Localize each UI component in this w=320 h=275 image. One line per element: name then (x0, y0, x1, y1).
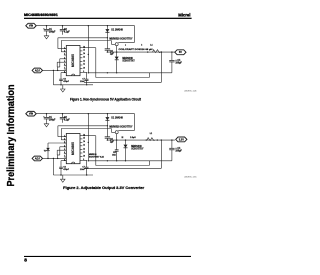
wire ground return (Fig.1) (88, 72, 172, 73)
wire switch node to VOUT (Fig.1) (107, 51, 175, 52)
svg-text:MIC4685: MIC4685 (71, 54, 75, 67)
IC U1 MIC4685 (Fig.2) (66, 134, 80, 164)
wire bottom return with ADJ drop (Fig.2) (53, 158, 93, 175)
svg-text:L1: L1 (150, 133, 153, 135)
wire pin5 pin6 bundle (Fig.1) (57, 59, 66, 67)
svg-text:6: 6 (64, 64, 65, 66)
wire VIN rail (Fig.2) (36, 113, 134, 115)
label figure 1 code (184, 90, 198, 92)
header rule (24, 18, 192, 19)
svg-text:ADJ: ADJ (35, 69, 41, 72)
capacitor C4 output 100uF (Fig.1) (169, 52, 182, 73)
svg-text:10: 10 (83, 67, 85, 69)
svg-text:15: 15 (83, 50, 85, 52)
svg-text:SCHOTTKY: SCHOTTKY (122, 61, 135, 63)
svg-text:1µF: 1µF (110, 141, 115, 143)
wire ADJ to IC pin7 (Fig.2) (43, 155, 67, 159)
svg-text:3: 3 (64, 54, 65, 56)
svg-text:0.1µF: 0.1µF (64, 120, 70, 122)
capacitor C6 comp 470pF (Fig.2) (59, 161, 70, 175)
IC U1 MIC4685 (Fig.1) (66, 46, 80, 76)
wire ground return (Fig.2) (88, 160, 172, 161)
svg-text:ADJ: ADJ (35, 157, 41, 160)
svg-text:7: 7 (64, 68, 65, 70)
caption figure 2 (63, 186, 145, 190)
svg-text:b: b (141, 45, 142, 47)
header right brand (178, 13, 190, 18)
wire pin5 pin6 bundle (Fig.2) (57, 147, 66, 155)
svg-text:a: a (125, 45, 126, 47)
node VIN terminal (Fig.2) (26, 111, 36, 116)
svg-text:100µF: 100µF (49, 32, 56, 34)
wire switch node to VOUT (Fig.2) (107, 139, 175, 140)
svg-text:5V: 5V (179, 51, 182, 54)
svg-text:MBR0520 SCHOTTKY: MBR0520 SCHOTTKY (109, 126, 133, 128)
svg-text:100µF: 100µF (49, 120, 56, 122)
wire rail corner to BS node (Fig.2) (118, 114, 134, 131)
wire loop pin3 to BS node (Fig.2) (61, 129, 115, 140)
ground bottom (Fig.1) (61, 85, 66, 92)
svg-text:VIN: VIN (29, 113, 33, 116)
capacitor C7 comp 1.5nF (Fig.2) (80, 160, 89, 175)
inductor L1 68uH (Fig.2) (122, 133, 155, 141)
footer page number (24, 257, 27, 263)
ground bottom (Fig.2) (61, 175, 66, 182)
diode D2 catch MBRS340 (Fig.1) (115, 52, 136, 73)
inductor L1 68uH (Fig.1) (119, 44, 161, 52)
svg-text:10Ω: 10Ω (112, 155, 116, 157)
capacitor C1 100uF (Fig.1) (43, 25, 56, 35)
svg-text:11: 11 (83, 152, 85, 154)
svg-text:11: 11 (83, 64, 85, 66)
svg-text:1.5nF: 1.5nF (80, 169, 86, 171)
svg-text:8: 8 (24, 257, 27, 263)
svg-text:14: 14 (83, 140, 85, 143)
svg-text:D1 1N4148: D1 1N4148 (111, 29, 123, 32)
capacitor C3 bootstrap 1uF (Fig.2) (105, 126, 115, 144)
diode D1 bootstrap 1N4148 (Fig.1) (105, 25, 133, 40)
label D2 part number (Fig.2) (89, 154, 105, 158)
wire VIN pin drop (Fig.2) (88, 113, 89, 161)
node VOUT terminal (Fig.1) (175, 50, 186, 55)
svg-text:6: 6 (64, 152, 65, 154)
capacitor C7 comp 1.5nF (Fig.1) (80, 72, 89, 85)
wire rail corner to BS node (Fig.1) (118, 26, 134, 43)
svg-text:4685-04: 4685-04 (184, 90, 198, 92)
node ADJ terminal (Fig.2) (32, 156, 42, 161)
node BS circle (Fig.1) (115, 43, 118, 52)
header left part number (24, 13, 58, 17)
svg-text:1.5nF: 1.5nF (80, 81, 86, 83)
svg-text:10: 10 (83, 155, 85, 157)
wire loop pin2 to bootstrap rail (Fig.1) (58, 37, 108, 49)
svg-text:470pF: 470pF (63, 168, 69, 171)
svg-text:12: 12 (83, 60, 85, 62)
capacitor C4 output 100uF (Fig.2) (169, 140, 182, 161)
svg-text:7: 7 (64, 156, 65, 158)
svg-text:+: + (43, 27, 45, 31)
wire feedback sense from VOUT (Fig.2) (84, 140, 161, 168)
svg-text:VIN: VIN (29, 25, 33, 28)
capacitor C6 comp 470pF (Fig.1) (59, 73, 70, 85)
diode D1 bootstrap 1N4148 (Fig.2) (105, 113, 133, 128)
capacitor C2 0.1uF (Fig.1) (60, 25, 71, 35)
svg-text:1.5µH: 1.5µH (130, 137, 136, 139)
sidebar vertical title Preliminary Information (6, 85, 17, 187)
capacitor C3 bootstrap 1uF (Fig.1) (105, 38, 115, 56)
svg-text:0.1µF: 0.1µF (64, 32, 70, 34)
footer rule (24, 256, 191, 257)
svg-text:13: 13 (83, 57, 85, 59)
svg-text:COILCRAFT DO3316 68 µH: COILCRAFT DO3316 68 µH (119, 48, 154, 51)
node VOUT terminal (Fig.2) (176, 137, 187, 142)
wire VIN pin drop (Fig.1) (88, 25, 89, 73)
svg-text:Figure 2. Adjustable Output 3.: Figure 2. Adjustable Output 3.3V Convert… (63, 186, 145, 190)
ground below C1 (Fig.1) (44, 35, 49, 39)
svg-text:Micrel: Micrel (178, 13, 190, 18)
IC pin stubs with pin numbers (Fig.1) (64, 46, 85, 73)
wire feedback nest pin16 (Fig.2) (82, 136, 149, 166)
IC pin stubs with pin numbers (Fig.2) (64, 134, 85, 161)
svg-text:SCHOTTKY: SCHOTTKY (131, 149, 144, 151)
svg-text:D1 1N4148: D1 1N4148 (111, 117, 123, 120)
svg-text:MIC4685/4690/4691: MIC4685/4690/4691 (24, 13, 58, 17)
svg-text:100µF: 100µF (175, 62, 182, 64)
ground below C1 (Fig.2) (44, 123, 49, 127)
node ADJ terminal (Fig.1) (32, 68, 42, 73)
diode D2 catch MBRS340 (Fig.2) (124, 139, 145, 161)
svg-text:MIC4685: MIC4685 (71, 142, 75, 155)
svg-text:13: 13 (83, 145, 85, 147)
capacitor C1 100uF (Fig.2) (43, 113, 56, 123)
svg-text:MBR0520 SCHOTTKY: MBR0520 SCHOTTKY (109, 38, 133, 40)
caption figure 1 (70, 98, 142, 102)
svg-text:12: 12 (83, 148, 85, 150)
node BS circle (Fig.2) (115, 131, 118, 140)
capacitor C2 0.1uF (Fig.2) (60, 113, 71, 123)
label figure 2 code (184, 176, 198, 178)
wire feedback nest pin16 (Fig.1) (82, 48, 149, 78)
svg-text:470pF: 470pF (63, 80, 69, 83)
wire VIN rail (Fig.1) (36, 25, 134, 27)
svg-text:14: 14 (83, 52, 85, 55)
svg-text:Figure 1. Non-Synchronous 5V A: Figure 1. Non-Synchronous 5V Application… (70, 98, 142, 102)
svg-text:100µF: 100µF (175, 150, 182, 152)
diode D3 adjust (Fig.2) (44, 143, 67, 159)
svg-text:4685-05: 4685-05 (184, 176, 198, 178)
wire loop pin2 to bootstrap rail (Fig.2) (58, 125, 108, 137)
wire bottom return with ADJ drop (Fig.1) (53, 70, 93, 85)
svg-text:1µF: 1µF (110, 53, 115, 55)
svg-text:SCHOTTKY 0.3A: SCHOTTKY 0.3A (89, 155, 105, 158)
svg-text:15: 15 (83, 138, 85, 140)
svg-text:22: 22 (122, 137, 124, 139)
svg-text:L1: L1 (150, 44, 153, 46)
wire feedback sense from VOUT (Fig.1) (84, 52, 161, 82)
svg-text:+: + (43, 115, 45, 119)
resistor R3 snubber (Fig.2) (112, 140, 119, 161)
svg-text:Preliminary Information: Preliminary Information (6, 85, 17, 187)
wire loop pin3 to BS node (Fig.1) (61, 41, 115, 52)
node VIN terminal (Fig.1) (26, 23, 36, 28)
svg-text:3.3V: 3.3V (179, 138, 184, 141)
wire ADJ to IC pin7 (Fig.1) (43, 67, 67, 71)
